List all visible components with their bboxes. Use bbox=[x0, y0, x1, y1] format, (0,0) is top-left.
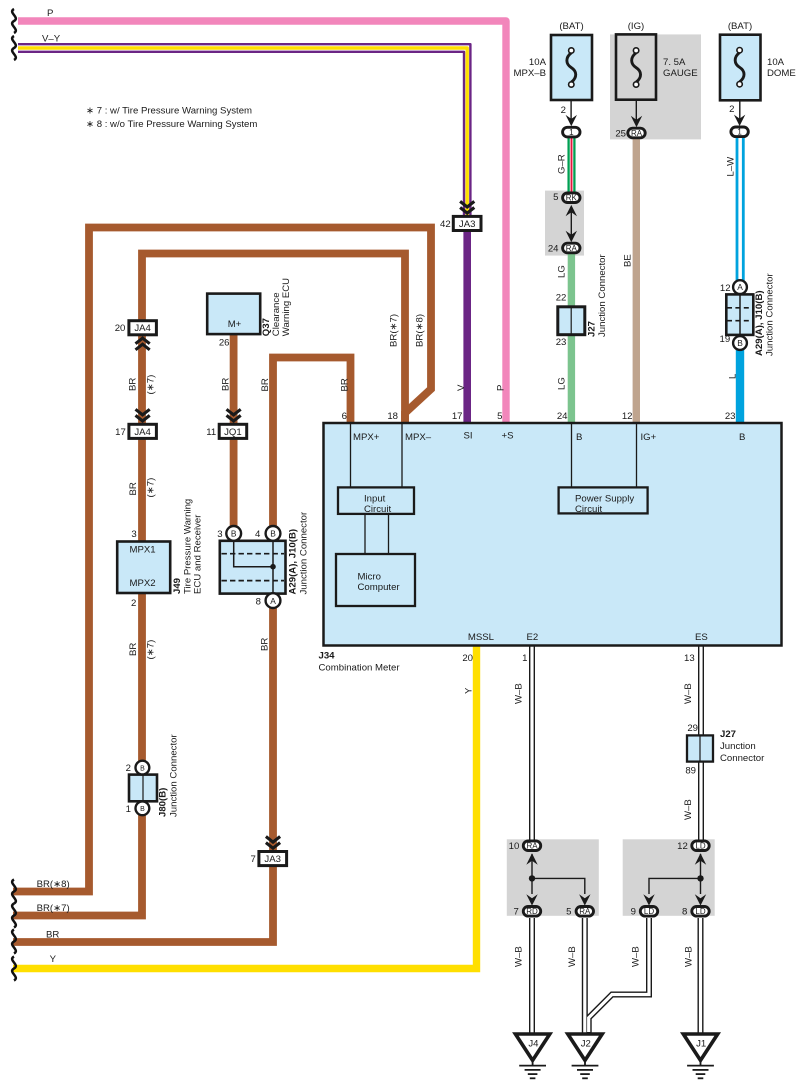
svg-text:W–B: W–B bbox=[514, 946, 525, 967]
svg-text:Power Supply: Power Supply bbox=[575, 494, 634, 505]
svg-text:LD: LD bbox=[695, 907, 705, 916]
svg-text:BR: BR bbox=[128, 482, 139, 495]
svg-text:RA: RA bbox=[579, 907, 591, 916]
svg-text:RA: RA bbox=[631, 129, 643, 138]
svg-text:Y: Y bbox=[464, 687, 475, 694]
svg-text:1: 1 bbox=[569, 128, 574, 137]
svg-text:J2: J2 bbox=[581, 1039, 591, 1050]
svg-text:∗ 7 : w/ Tire Pressure Warning: ∗ 7 : w/ Tire Pressure Warning System bbox=[86, 106, 252, 117]
svg-text:Circuit: Circuit bbox=[364, 504, 392, 515]
svg-text:Connector: Connector bbox=[720, 753, 765, 764]
svg-text:24: 24 bbox=[548, 243, 559, 254]
svg-text:BR: BR bbox=[340, 378, 351, 391]
svg-text:12: 12 bbox=[622, 411, 633, 422]
svg-text:DOME: DOME bbox=[767, 68, 796, 79]
svg-text:W–B: W–B bbox=[684, 946, 695, 967]
svg-text:MPX–B: MPX–B bbox=[513, 68, 546, 79]
svg-text:B: B bbox=[140, 806, 145, 813]
svg-text:Y: Y bbox=[50, 954, 57, 965]
svg-text:2: 2 bbox=[126, 763, 131, 774]
svg-text:BR: BR bbox=[46, 930, 59, 941]
svg-text:2: 2 bbox=[729, 104, 734, 115]
svg-text:(∗7): (∗7) bbox=[146, 640, 157, 660]
svg-text:12: 12 bbox=[677, 841, 688, 852]
svg-text:GAUGE: GAUGE bbox=[663, 68, 698, 79]
svg-text:BR(∗8): BR(∗8) bbox=[415, 314, 426, 347]
svg-text:BE: BE bbox=[623, 254, 634, 267]
svg-text:Input: Input bbox=[364, 494, 386, 505]
svg-text:13: 13 bbox=[684, 653, 695, 664]
svg-text:L–W: L–W bbox=[726, 156, 737, 177]
svg-text:(∗7): (∗7) bbox=[146, 478, 157, 498]
svg-text:BR(∗7): BR(∗7) bbox=[389, 314, 400, 347]
svg-text:RA: RA bbox=[526, 842, 538, 851]
svg-text:BR: BR bbox=[128, 378, 139, 391]
svg-text:23: 23 bbox=[725, 411, 736, 422]
svg-text:MPX–: MPX– bbox=[405, 432, 432, 443]
svg-text:W–B: W–B bbox=[631, 946, 642, 967]
svg-text:B: B bbox=[140, 765, 145, 772]
svg-text:1: 1 bbox=[126, 804, 131, 815]
svg-text:3: 3 bbox=[217, 529, 222, 540]
svg-text:26: 26 bbox=[219, 338, 230, 349]
svg-text:5: 5 bbox=[497, 411, 502, 422]
svg-text:5: 5 bbox=[553, 192, 558, 203]
svg-text:2: 2 bbox=[131, 598, 136, 609]
svg-text:B: B bbox=[576, 432, 582, 443]
svg-text:B: B bbox=[231, 529, 237, 539]
svg-text:Computer: Computer bbox=[358, 582, 401, 593]
svg-text:Circuit: Circuit bbox=[575, 504, 603, 515]
svg-text:12: 12 bbox=[720, 283, 731, 294]
svg-text:G–R: G–R bbox=[557, 154, 568, 174]
svg-text:BR: BR bbox=[128, 643, 139, 656]
svg-text:LG: LG bbox=[557, 265, 568, 278]
svg-text:A: A bbox=[270, 596, 276, 606]
svg-text:19: 19 bbox=[720, 334, 731, 345]
svg-text:Combination Meter: Combination Meter bbox=[319, 663, 401, 674]
svg-text:MPX+: MPX+ bbox=[353, 432, 380, 443]
svg-text:RD: RD bbox=[526, 907, 538, 916]
svg-text:Junction: Junction bbox=[720, 741, 756, 752]
svg-text:5: 5 bbox=[566, 907, 571, 918]
svg-text:P: P bbox=[496, 385, 507, 391]
svg-text:10A: 10A bbox=[529, 57, 547, 68]
svg-text:Junction Connector: Junction Connector bbox=[299, 511, 310, 594]
svg-text:V–Y: V–Y bbox=[42, 34, 61, 45]
svg-text:J1: J1 bbox=[696, 1039, 706, 1050]
svg-text:MPX2: MPX2 bbox=[130, 578, 156, 589]
svg-text:IG+: IG+ bbox=[641, 432, 657, 443]
svg-text:+S: +S bbox=[502, 431, 514, 442]
svg-text:SI: SI bbox=[464, 431, 473, 442]
svg-text:23: 23 bbox=[556, 337, 567, 348]
svg-text:BR: BR bbox=[260, 638, 271, 651]
svg-text:Junction Connector: Junction Connector bbox=[169, 734, 180, 817]
svg-text:20: 20 bbox=[115, 323, 126, 334]
svg-text:7: 7 bbox=[251, 854, 256, 865]
svg-text:JA3: JA3 bbox=[459, 219, 476, 230]
svg-text:BR(∗8): BR(∗8) bbox=[37, 879, 70, 890]
svg-text:Junction Connector: Junction Connector bbox=[597, 254, 608, 337]
svg-text:89: 89 bbox=[685, 766, 696, 777]
svg-text:6: 6 bbox=[342, 411, 347, 422]
svg-text:20: 20 bbox=[462, 653, 473, 664]
svg-text:8: 8 bbox=[256, 597, 261, 608]
svg-text:W–B: W–B bbox=[683, 683, 694, 704]
svg-text:J4: J4 bbox=[528, 1039, 539, 1050]
svg-text:J80(B): J80(B) bbox=[158, 788, 169, 817]
svg-text:JA4: JA4 bbox=[134, 323, 151, 334]
svg-text:LG: LG bbox=[557, 377, 568, 390]
svg-text:J27: J27 bbox=[720, 729, 736, 740]
svg-text:JQ1: JQ1 bbox=[224, 427, 242, 438]
svg-text:BR(∗7): BR(∗7) bbox=[37, 903, 70, 914]
svg-text:B: B bbox=[739, 432, 745, 443]
svg-text:B: B bbox=[737, 338, 743, 348]
svg-text:A: A bbox=[737, 282, 743, 292]
svg-text:29: 29 bbox=[687, 723, 698, 734]
svg-text:1: 1 bbox=[522, 653, 527, 664]
svg-text:7: 7 bbox=[513, 907, 518, 918]
svg-text:9: 9 bbox=[631, 907, 636, 918]
svg-text:MSSL: MSSL bbox=[468, 632, 495, 643]
svg-text:JA3: JA3 bbox=[264, 854, 281, 865]
svg-text:E2: E2 bbox=[527, 632, 539, 643]
svg-text:LD: LD bbox=[695, 842, 705, 851]
svg-text:11: 11 bbox=[206, 427, 216, 438]
svg-text:7. 5A: 7. 5A bbox=[663, 57, 686, 68]
svg-text:8: 8 bbox=[682, 907, 687, 918]
svg-text:Warning ECU: Warning ECU bbox=[281, 278, 292, 336]
svg-text:24: 24 bbox=[557, 411, 568, 422]
svg-text:J27: J27 bbox=[587, 321, 598, 337]
svg-text:4: 4 bbox=[255, 529, 261, 540]
svg-text:J34: J34 bbox=[319, 651, 336, 662]
svg-text:L: L bbox=[728, 373, 739, 379]
svg-text:(BAT): (BAT) bbox=[728, 21, 752, 32]
svg-text:17: 17 bbox=[115, 427, 126, 438]
svg-text:ECU and Receiver: ECU and Receiver bbox=[193, 514, 204, 594]
svg-text:BR: BR bbox=[221, 378, 232, 391]
svg-text:42: 42 bbox=[440, 219, 451, 230]
svg-text:P: P bbox=[47, 8, 53, 19]
svg-text:25: 25 bbox=[615, 129, 626, 140]
svg-text:W–B: W–B bbox=[567, 946, 578, 967]
svg-text:RK: RK bbox=[566, 194, 578, 203]
svg-text:18: 18 bbox=[387, 411, 398, 422]
svg-text:BR: BR bbox=[260, 378, 271, 391]
svg-text:RA: RA bbox=[566, 244, 578, 253]
svg-text:10A: 10A bbox=[767, 57, 785, 68]
svg-text:(IG): (IG) bbox=[628, 21, 645, 32]
svg-text:MPX1: MPX1 bbox=[130, 544, 156, 555]
svg-text:V: V bbox=[456, 384, 467, 391]
svg-text:22: 22 bbox=[556, 292, 567, 303]
svg-text:LD: LD bbox=[644, 907, 654, 916]
svg-text:17: 17 bbox=[452, 411, 463, 422]
svg-text:∗ 8 : w/o Tire Pressure Warnin: ∗ 8 : w/o Tire Pressure Warning System bbox=[86, 119, 257, 130]
svg-text:ES: ES bbox=[695, 632, 708, 643]
svg-text:W–B: W–B bbox=[514, 683, 525, 704]
svg-text:3: 3 bbox=[131, 529, 136, 540]
svg-text:J49: J49 bbox=[172, 578, 183, 594]
svg-text:Junction Connector: Junction Connector bbox=[765, 273, 776, 356]
svg-text:(∗7): (∗7) bbox=[146, 375, 157, 395]
svg-text:B: B bbox=[270, 529, 276, 539]
svg-text:M+: M+ bbox=[228, 319, 242, 330]
svg-text:JA4: JA4 bbox=[134, 427, 151, 438]
svg-text:2: 2 bbox=[561, 105, 566, 116]
svg-text:A29(A), J10(B): A29(A), J10(B) bbox=[288, 529, 299, 595]
svg-text:W–B: W–B bbox=[683, 799, 694, 820]
svg-text:10: 10 bbox=[509, 841, 520, 852]
svg-text:A29(A), J10(B): A29(A), J10(B) bbox=[754, 290, 765, 356]
svg-text:1: 1 bbox=[737, 128, 742, 137]
svg-text:(BAT): (BAT) bbox=[559, 21, 583, 32]
